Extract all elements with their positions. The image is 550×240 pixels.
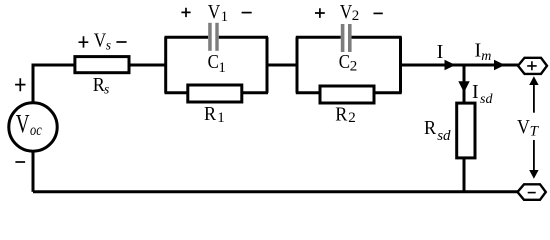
svg-text:V: V [517,116,530,138]
svg-text:V: V [340,1,353,23]
svg-text:1: 1 [221,9,229,25]
svg-text:2: 2 [350,58,358,74]
svg-text:I: I [437,41,444,63]
svg-text:s: s [104,81,109,96]
svg-text:1: 1 [217,110,225,126]
svg-text:V: V [16,109,30,138]
svg-text:I: I [472,81,479,103]
svg-text:C: C [208,51,219,73]
svg-text:C: C [339,51,350,73]
svg-text:2: 2 [348,110,356,126]
svg-text:sd: sd [480,92,493,107]
svg-text:R: R [335,103,348,125]
svg-text:1: 1 [218,60,226,76]
svg-text:oc: oc [30,122,42,139]
svg-text:2: 2 [352,8,360,24]
svg-text:m: m [481,49,491,64]
svg-text:R: R [424,117,437,139]
svg-text:sd: sd [437,128,451,144]
svg-text:R: R [204,103,217,125]
svg-text:V: V [208,1,221,23]
svg-text:I: I [475,40,482,62]
svg-text:s: s [106,37,111,52]
